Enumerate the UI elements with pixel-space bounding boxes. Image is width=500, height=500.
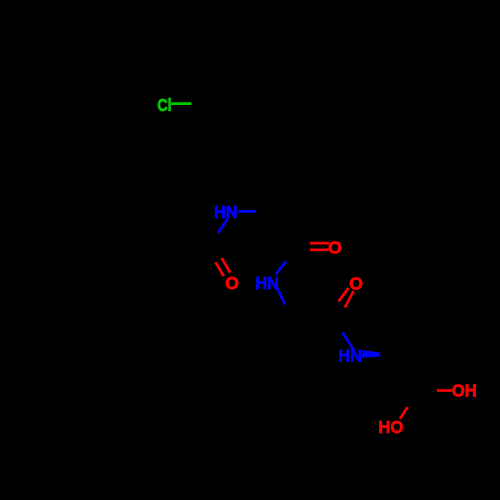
svg-text:O: O [328, 237, 342, 257]
svg-text:OH: OH [452, 381, 477, 401]
svg-text:HO: HO [378, 417, 403, 437]
svg-text:O: O [349, 273, 363, 293]
svg-text:HN: HN [338, 346, 361, 366]
svg-text:Cl: Cl [157, 95, 171, 115]
svg-text:HN: HN [255, 273, 278, 293]
svg-text:HN: HN [214, 202, 237, 222]
svg-text:O: O [225, 273, 239, 293]
